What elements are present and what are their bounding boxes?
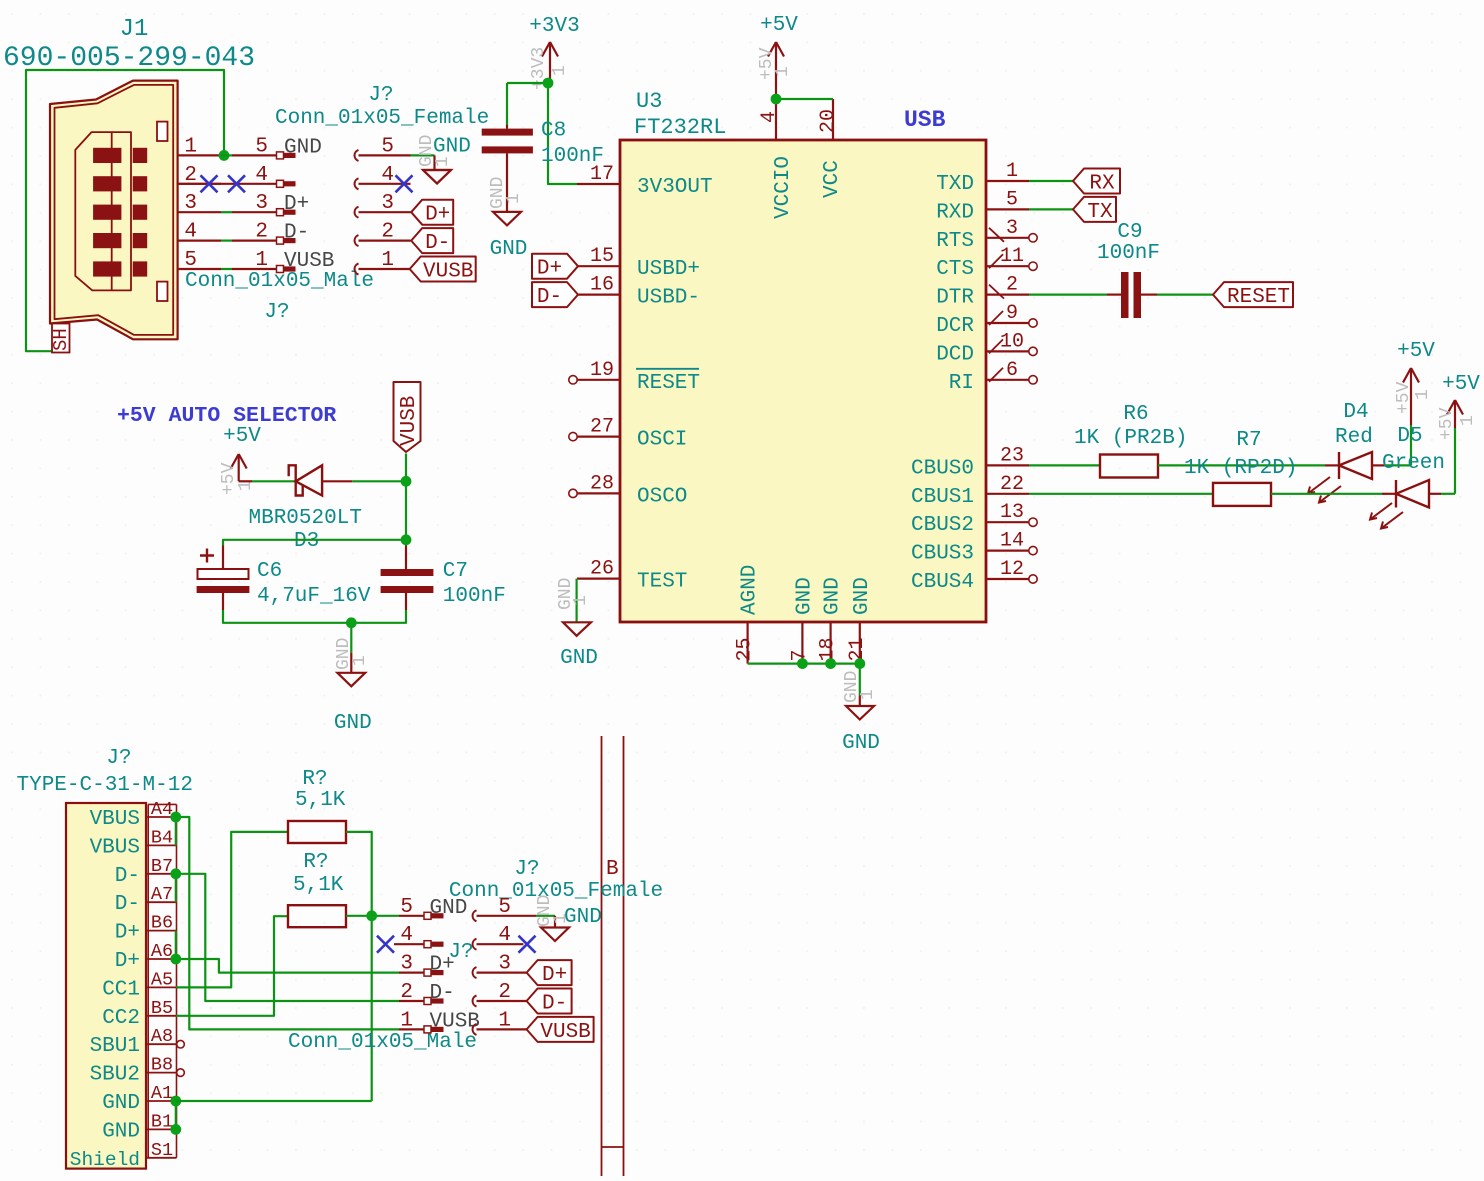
svg-text:Shield: Shield	[70, 1149, 140, 1171]
U3 pin 17 3V3OUT (left)	[577, 163, 713, 199]
svg-text:2: 2	[400, 981, 413, 1004]
svg-text:4: 4	[381, 164, 394, 187]
TYPE-C pin B8 SBU2	[90, 1055, 185, 1087]
svg-text:Conn_01x05_Female: Conn_01x05_Female	[449, 880, 663, 903]
svg-text:VCC: VCC	[821, 160, 844, 198]
svg-text:VBUS: VBUS	[90, 836, 140, 859]
svg-text:J1: J1	[120, 16, 149, 43]
female J? pin 3 (top)	[355, 192, 411, 218]
svg-text:21: 21	[846, 637, 869, 661]
svg-text:10: 10	[1000, 330, 1024, 353]
global label D- (top)	[411, 228, 453, 255]
svg-text:13: 13	[1000, 501, 1024, 524]
LED D4	[1308, 401, 1411, 503]
svg-text:SBU1: SBU1	[90, 1035, 140, 1058]
power GND (top female)	[417, 135, 471, 184]
svg-text:25: 25	[734, 637, 757, 661]
diode D3 MBR0520LT	[239, 465, 406, 553]
svg-text:USB: USB	[904, 107, 946, 133]
svg-text:B6: B6	[151, 913, 173, 934]
junction A6	[170, 954, 181, 965]
svg-text:GND: GND	[842, 732, 880, 755]
svg-text:3: 3	[400, 953, 413, 976]
capacitor C6 4,7uF_16V	[197, 546, 371, 611]
svg-text:Conn_01x05_Female: Conn_01x05_Female	[275, 107, 489, 130]
U3 pin 18 GND (bottom)	[817, 577, 845, 663]
global label D+ (bottom)	[527, 960, 572, 987]
svg-text:DCR: DCR	[936, 315, 974, 338]
U3 pin 15 USBD+ (left)	[577, 245, 700, 281]
wire +3V3 to C8 and pin17	[507, 83, 577, 184]
wire CC1 to R? (top 5,1K)	[176, 832, 288, 988]
resistor R? 5,1K (top)	[288, 768, 346, 843]
svg-text:CC2: CC2	[102, 1007, 140, 1030]
female J? pin 4 (bottom)	[473, 924, 524, 950]
svg-text:+5V: +5V	[223, 425, 261, 448]
wire resistors to GND bus	[176, 832, 399, 1101]
svg-text:5,1K: 5,1K	[295, 789, 346, 812]
svg-text:1: 1	[350, 655, 370, 666]
junction +3V3 node	[543, 78, 554, 89]
no-connect female pin4 (bottom)	[519, 936, 536, 953]
svg-text:15: 15	[590, 245, 614, 268]
male J? pin 3 (bottom)	[399, 953, 455, 977]
svg-text:VBUS: VBUS	[90, 808, 140, 831]
U3 pin 27 OSCI (left)	[569, 416, 688, 452]
female J? pin 5 (bottom)	[473, 896, 536, 922]
svg-text:28: 28	[590, 472, 614, 495]
svg-text:D3: D3	[294, 530, 319, 553]
U3 pin 28 OSCO (left)	[569, 472, 688, 508]
svg-text:B: B	[606, 858, 619, 881]
svg-text:6: 6	[1006, 359, 1018, 382]
svg-text:Conn_01x05_Male: Conn_01x05_Male	[288, 1031, 477, 1054]
svg-text:D+: D+	[537, 258, 562, 281]
capacitor C7 100nF	[381, 546, 506, 611]
wire GND A1-B1 pair	[175, 1101, 177, 1129]
svg-text:C8: C8	[541, 120, 566, 143]
svg-text:TEST: TEST	[637, 571, 687, 594]
svg-text:D-: D-	[115, 865, 140, 888]
junction GND selector	[346, 617, 357, 628]
J1 pin 1	[178, 135, 221, 158]
svg-text:11: 11	[1000, 245, 1024, 268]
TYPE-C pin B1 GND	[102, 1111, 176, 1143]
svg-text:RXD: RXD	[936, 201, 974, 224]
svg-text:9: 9	[1006, 302, 1018, 325]
global label VUSB (selector, vertical)	[394, 382, 422, 452]
svg-text:+5V: +5V	[760, 14, 798, 37]
connector J? Conn_01x05_Male (top)	[185, 270, 374, 324]
svg-text:2: 2	[1006, 274, 1018, 297]
svg-text:CBUS0: CBUS0	[911, 457, 974, 480]
svg-text:Green: Green	[1382, 452, 1445, 475]
svg-text:+5V: +5V	[1394, 381, 1414, 414]
wire D+ to male D+	[176, 959, 399, 973]
U3 pin 9 DCR (right)	[936, 302, 1037, 338]
LED D5	[1370, 425, 1455, 529]
power +5V (D4)	[1394, 340, 1435, 425]
svg-text:GND: GND	[851, 577, 874, 615]
resistor R? 5,1K (bottom)	[288, 851, 346, 927]
svg-text:CC1: CC1	[102, 978, 140, 1001]
text USB (note)	[904, 107, 946, 133]
global label VUSB (bottom)	[527, 1017, 594, 1044]
svg-text:1: 1	[773, 66, 793, 77]
svg-text:D-: D-	[542, 993, 567, 1016]
svg-text:4: 4	[758, 111, 781, 123]
svg-text:4,7uF_16V: 4,7uF_16V	[257, 585, 371, 608]
svg-text:100nF: 100nF	[1097, 242, 1160, 265]
U3 pin 7 GND (bottom)	[788, 577, 816, 663]
power +5V (above U3)	[757, 14, 798, 99]
svg-text:R6: R6	[1123, 403, 1148, 426]
svg-text:OSCI: OSCI	[637, 429, 687, 452]
svg-text:+5V: +5V	[1397, 340, 1435, 363]
svg-text:1: 1	[550, 65, 570, 76]
female J? pin 5 (top)	[355, 135, 411, 161]
U3 pin 19 RESET (left)	[569, 359, 700, 395]
svg-text:CTS: CTS	[936, 258, 974, 281]
svg-text:RX: RX	[1089, 173, 1115, 196]
TYPE-C pin A6 D+	[115, 941, 177, 973]
svg-text:R?: R?	[303, 851, 328, 874]
svg-text:CBUS4: CBUS4	[911, 571, 974, 594]
svg-text:C6: C6	[257, 560, 282, 583]
TYPE-C pin B4 VBUS	[90, 827, 177, 859]
svg-text:+3V3: +3V3	[529, 15, 579, 38]
global label D+ (top)	[411, 200, 453, 227]
junction A4	[170, 812, 181, 823]
svg-text:D+: D+	[542, 964, 567, 987]
U3 pin 1 TXD (right)	[936, 160, 1029, 196]
svg-text:2: 2	[255, 221, 268, 244]
global label D- (bottom)	[527, 989, 572, 1016]
svg-text:16: 16	[590, 274, 614, 297]
power GND (bottom female)	[535, 895, 602, 941]
svg-text:4: 4	[184, 221, 197, 244]
power GND (TEST)	[556, 578, 598, 670]
wire RXD to TX	[1029, 208, 1073, 210]
svg-text:GND: GND	[560, 647, 598, 670]
no-connect female pin4 (top)	[396, 175, 413, 192]
svg-text:OSCO: OSCO	[637, 485, 687, 508]
svg-text:A8: A8	[151, 1026, 173, 1047]
svg-text:1: 1	[184, 135, 197, 158]
svg-text:3: 3	[381, 192, 394, 215]
svg-text:5,1K: 5,1K	[293, 874, 344, 897]
svg-text:SBU2: SBU2	[90, 1064, 140, 1087]
svg-text:5: 5	[498, 896, 511, 919]
svg-text:B4: B4	[151, 827, 173, 848]
wire CC2 to R? (bottom 5,1K)	[176, 916, 288, 1016]
global label RESET	[1213, 282, 1293, 309]
svg-text:3: 3	[498, 953, 511, 976]
sheet B border	[602, 736, 624, 1176]
svg-text:2: 2	[381, 221, 394, 244]
svg-text:D+: D+	[284, 193, 309, 216]
U3 pin 26 TEST (left)	[577, 558, 687, 594]
svg-text:3: 3	[1006, 217, 1018, 240]
svg-text:3: 3	[255, 192, 268, 215]
svg-text:A7: A7	[151, 884, 173, 905]
svg-text:GND: GND	[822, 577, 845, 615]
U3 pin 21 GND (bottom)	[846, 577, 874, 663]
junction B1	[170, 1124, 181, 1135]
svg-text:C7: C7	[443, 560, 468, 583]
svg-text:5: 5	[255, 135, 268, 158]
female J? pin 1 (top)	[355, 249, 411, 275]
svg-text:Red: Red	[1335, 426, 1373, 449]
wire top of C6/C7	[223, 540, 406, 546]
svg-text:D-: D-	[284, 222, 309, 245]
svg-text:RTS: RTS	[936, 230, 974, 253]
capacitor C9	[1029, 221, 1213, 318]
svg-text:1: 1	[551, 913, 571, 924]
junction GND pin7	[797, 658, 808, 669]
svg-text:RESET: RESET	[637, 372, 700, 395]
svg-text:1K (PR2B): 1K (PR2B)	[1074, 427, 1187, 450]
U3 pin 14 CBUS3 (right)	[911, 530, 1037, 566]
svg-text:CBUS3: CBUS3	[911, 543, 974, 566]
junction J1 pin1 / male pin5	[219, 150, 230, 161]
svg-text:17: 17	[590, 163, 614, 186]
U3 pin 6 RI (right)	[949, 359, 1037, 395]
power GND (under U3)	[842, 671, 880, 755]
svg-text:5: 5	[1006, 188, 1018, 211]
svg-text:VUSB: VUSB	[423, 261, 473, 284]
J1 shield pin SH	[50, 324, 72, 353]
svg-text:27: 27	[590, 416, 614, 439]
svg-text:GND: GND	[102, 1120, 140, 1143]
svg-text:J?: J?	[514, 858, 539, 881]
U3 pin 23 CBUS0 (right)	[911, 444, 1029, 480]
svg-text:D+: D+	[430, 954, 455, 977]
svg-text:1: 1	[1458, 415, 1478, 426]
svg-text:U3: U3	[636, 89, 662, 114]
text +5V AUTO SELECTOR (note)	[117, 404, 336, 428]
U3 pin 3 RTS (right)	[936, 217, 1037, 253]
svg-text:B8: B8	[151, 1055, 173, 1076]
svg-text:VUSB: VUSB	[398, 396, 421, 446]
wire D- B7-A7 pair	[175, 874, 177, 902]
svg-text:D+: D+	[425, 204, 450, 227]
svg-text:5: 5	[381, 135, 394, 158]
svg-text:1: 1	[858, 689, 878, 700]
junction diode/VUSB	[401, 476, 412, 487]
connector J? Conn_01x05_Male (bottom)	[288, 941, 477, 1054]
svg-text:C9: C9	[1117, 221, 1142, 244]
svg-text:GND: GND	[284, 136, 322, 159]
wire D- to male D-	[176, 874, 399, 1001]
U3 pin 11 CTS (right)	[936, 245, 1037, 281]
male J? pin 3 (top)	[221, 192, 309, 216]
connector J1 value 690-005-299-043	[3, 43, 255, 74]
TYPE-C pin A4 VBUS	[90, 799, 177, 831]
svg-text:GND: GND	[102, 1092, 140, 1115]
svg-text:RI: RI	[949, 372, 974, 395]
U3 pin 22 CBUS1 (right)	[911, 473, 1029, 509]
J1 pin 3	[178, 192, 221, 215]
U3 pin 16 USBD- (left)	[577, 274, 700, 310]
svg-text:SH: SH	[50, 328, 72, 351]
J1 pin 2	[178, 164, 221, 187]
svg-text:B5: B5	[151, 998, 173, 1019]
junction +5V VCCIO	[771, 94, 782, 105]
male J? pin 2 (bottom)	[399, 981, 455, 1005]
wire bottom of C6/C7 to GND	[223, 610, 406, 653]
svg-text:14: 14	[1000, 530, 1024, 553]
svg-text:DCD: DCD	[936, 343, 974, 366]
svg-text:D4: D4	[1343, 401, 1368, 424]
svg-text:TX: TX	[1087, 201, 1113, 224]
no-connect male pin4 (bottom)	[377, 936, 394, 953]
global label TX	[1073, 197, 1116, 224]
TYPE-C pin A5 CC1	[102, 969, 176, 1001]
svg-text:4: 4	[255, 164, 268, 187]
svg-text:VCCIO: VCCIO	[772, 156, 795, 219]
wire D4 to +5V	[1410, 425, 1412, 465]
connector J? Conn_01x05_Female (bottom)	[449, 858, 663, 903]
female J? pin 2 (bottom)	[473, 981, 527, 1007]
svg-text:19: 19	[590, 359, 614, 382]
connector J1 reference text	[120, 16, 149, 43]
U3 pin 20 VCC (top)	[817, 99, 844, 198]
wire J1 pin1 to SH shield	[26, 70, 224, 351]
female J? pin 2 (top)	[355, 221, 411, 247]
svg-text:D-: D-	[115, 893, 140, 916]
svg-text:+5V: +5V	[1442, 373, 1480, 396]
wire female pin5 to GND (top)	[411, 155, 435, 170]
svg-text:D5: D5	[1397, 425, 1422, 448]
wire VUSB label down to caps	[405, 454, 407, 540]
global label D- (USBD-)	[532, 282, 578, 309]
junction GND pin21	[854, 658, 865, 669]
global label RX	[1073, 169, 1120, 196]
junction C7 top	[401, 534, 412, 545]
TYPE-C pin B5 CC2	[102, 998, 176, 1030]
power +5V (D5)	[1437, 373, 1480, 440]
wire VBUS A4-B4 pair	[175, 817, 177, 845]
J1 pin 5	[178, 249, 221, 272]
U3 pin 2 DTR (right)	[936, 274, 1029, 310]
female J? pin 3 (bottom)	[473, 953, 527, 979]
U3 pin 10 DCD (right)	[936, 330, 1037, 366]
svg-text:VUSB: VUSB	[540, 1021, 590, 1044]
U3 pin 25 AGND (bottom)	[734, 565, 762, 664]
svg-text:TYPE-C-31-M-12: TYPE-C-31-M-12	[17, 774, 193, 797]
wire VBUS to male VUSB	[176, 817, 399, 1029]
TYPE-C pin ladder frame	[148, 804, 176, 1157]
TYPE-C pin B6 D+	[115, 913, 177, 945]
svg-text:USBD-: USBD-	[637, 287, 700, 310]
U3 pin 12 CBUS4 (right)	[911, 558, 1037, 594]
svg-text:18: 18	[817, 637, 840, 661]
svg-text:12: 12	[1000, 558, 1024, 581]
svg-text:GND: GND	[334, 712, 372, 735]
power +3V3	[529, 15, 580, 90]
female J? pin 4 (top)	[355, 164, 411, 190]
svg-text:D+: D+	[115, 950, 140, 973]
svg-text:5: 5	[184, 249, 197, 272]
svg-text:D+: D+	[115, 922, 140, 945]
IC U3 FT232RL body	[620, 89, 986, 622]
svg-text:GND: GND	[433, 136, 471, 159]
svg-text:S1: S1	[151, 1140, 173, 1161]
resistor R7	[1029, 429, 1382, 506]
TYPE-C pin A7 D-	[115, 884, 177, 916]
junction R? GND bus	[366, 910, 377, 921]
svg-text:AGND: AGND	[739, 565, 762, 615]
male J? pin 4 (top)	[178, 164, 296, 188]
svg-text:3: 3	[184, 192, 197, 215]
svg-text:1: 1	[400, 1009, 413, 1032]
svg-text:3V3OUT: 3V3OUT	[637, 176, 713, 199]
connector J? TYPE-C-31-M-12 body	[17, 747, 193, 1169]
svg-text:1: 1	[433, 156, 453, 167]
svg-text:J?: J?	[264, 301, 289, 324]
svg-text:1: 1	[571, 595, 591, 606]
svg-text:A1: A1	[151, 1083, 173, 1104]
svg-text:2: 2	[498, 981, 511, 1004]
male J? pin 5 (bottom)	[399, 896, 467, 920]
svg-text:RESET: RESET	[1227, 286, 1290, 309]
power GND (selector)	[334, 638, 372, 735]
junction B7	[170, 868, 181, 879]
wire U3 ground pins	[748, 664, 860, 696]
wire D5 to +5V	[1454, 428, 1456, 494]
U3 pin 4 VCCIO (top)	[758, 99, 795, 219]
wire VCCIO to VCC	[776, 98, 833, 100]
power GND (under C8)	[488, 177, 527, 261]
svg-text:1: 1	[504, 193, 524, 204]
power +5V (selector)	[219, 425, 261, 495]
female J? pin 1 (bottom)	[473, 1009, 527, 1035]
svg-text:J?: J?	[106, 747, 131, 770]
svg-text:R7: R7	[1236, 429, 1261, 452]
capacitor C8	[482, 120, 604, 212]
svg-text:26: 26	[590, 558, 614, 581]
svg-text:USBD+: USBD+	[637, 258, 700, 281]
wire TEST to GND	[575, 579, 577, 623]
wire TXD to RX	[1029, 180, 1073, 182]
no-connect male pin4 (top)	[228, 175, 245, 192]
male J? pin 4 (bottom)	[394, 924, 444, 948]
svg-text:1: 1	[255, 249, 268, 272]
no-connect J1 pin2	[201, 175, 218, 192]
male J? pin 1 (bottom)	[399, 1009, 480, 1033]
svg-text:23: 23	[1000, 444, 1024, 467]
svg-text:+5V: +5V	[1437, 407, 1457, 440]
svg-text:TXD: TXD	[936, 173, 974, 196]
svg-text:FT232RL: FT232RL	[634, 115, 726, 140]
svg-text:DTR: DTR	[936, 287, 974, 310]
male J? pin 1 (top)	[221, 249, 334, 273]
connector J? Conn_01x05_Female (top)	[275, 84, 489, 130]
svg-text:GND: GND	[793, 577, 816, 615]
wire female pin5 to GND (bottom)	[536, 916, 555, 928]
svg-text:100nF: 100nF	[443, 585, 506, 608]
svg-text:5: 5	[400, 896, 413, 919]
svg-text:1: 1	[498, 1009, 511, 1032]
svg-text:D-: D-	[425, 232, 450, 255]
resistor R6	[1029, 403, 1325, 478]
svg-text:B7: B7	[151, 856, 173, 877]
TYPE-C pin A8 SBU1	[90, 1026, 185, 1058]
svg-text:CBUS2: CBUS2	[911, 514, 974, 537]
svg-text:D-: D-	[430, 982, 455, 1005]
J1 pin 4	[178, 221, 221, 244]
